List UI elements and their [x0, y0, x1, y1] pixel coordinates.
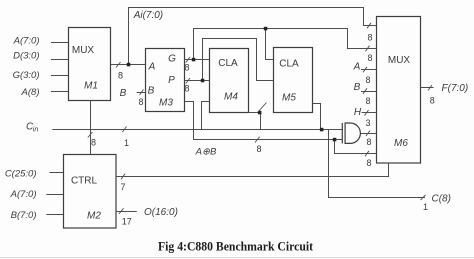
svg-text:M6: M6 — [394, 138, 408, 149]
svg-text:A(8): A(8) — [21, 87, 40, 98]
svg-text:A: A — [353, 61, 361, 72]
svg-text:B: B — [120, 88, 127, 99]
svg-text:8: 8 — [91, 138, 96, 148]
svg-text:A(7:0): A(7:0) — [10, 189, 37, 200]
svg-text:8: 8 — [365, 96, 370, 106]
svg-text:A: A — [148, 61, 156, 72]
svg-text:B(7:0): B(7:0) — [11, 210, 37, 221]
svg-text:MUX: MUX — [72, 45, 95, 56]
svg-text:H: H — [354, 107, 362, 118]
svg-text:CLA: CLA — [279, 59, 299, 70]
svg-text:1: 1 — [124, 138, 129, 148]
svg-text:in: in — [33, 127, 39, 134]
svg-text:CTRL: CTRL — [71, 176, 98, 187]
svg-text:Ai(7:0): Ai(7:0) — [133, 10, 163, 21]
svg-text:G: G — [168, 54, 176, 65]
svg-text:O(16:0): O(16:0) — [144, 207, 178, 218]
svg-text:8: 8 — [184, 84, 189, 94]
svg-text:D(3:0): D(3:0) — [13, 51, 39, 62]
svg-text:7: 7 — [120, 182, 125, 192]
svg-text:8: 8 — [367, 33, 372, 43]
svg-text:M1: M1 — [84, 80, 98, 91]
svg-text:Fig 4:C880 Benchmark Circuit: Fig 4:C880 Benchmark Circuit — [158, 240, 314, 254]
svg-text:8: 8 — [256, 144, 261, 154]
svg-text:G(3:0): G(3:0) — [13, 70, 40, 81]
svg-text:C(8): C(8) — [432, 193, 451, 204]
svg-text:M5: M5 — [282, 93, 296, 104]
svg-text:8: 8 — [118, 71, 123, 81]
svg-text:17: 17 — [122, 217, 132, 227]
svg-text:M3: M3 — [159, 97, 173, 108]
svg-text:8: 8 — [138, 97, 143, 107]
svg-text:P: P — [168, 75, 175, 86]
svg-text:CLA: CLA — [218, 58, 238, 69]
svg-text:1: 1 — [423, 202, 428, 212]
svg-text:M4: M4 — [224, 92, 238, 103]
svg-text:B: B — [148, 86, 155, 97]
svg-text:3: 3 — [365, 118, 370, 128]
svg-text:M2: M2 — [87, 210, 101, 221]
svg-text:8: 8 — [430, 96, 435, 106]
svg-text:8: 8 — [365, 75, 370, 85]
svg-text:B: B — [354, 82, 361, 93]
svg-text:MUX: MUX — [388, 55, 411, 66]
svg-text:F(7:0): F(7:0) — [442, 83, 469, 94]
svg-text:C(25:0): C(25:0) — [5, 168, 37, 179]
svg-text:A⊕B: A⊕B — [195, 146, 217, 157]
svg-text:8: 8 — [367, 53, 372, 63]
svg-text:8: 8 — [184, 63, 189, 73]
svg-text:8: 8 — [366, 158, 371, 168]
svg-text:A(7:0): A(7:0) — [13, 36, 40, 47]
svg-text:8: 8 — [366, 137, 371, 147]
